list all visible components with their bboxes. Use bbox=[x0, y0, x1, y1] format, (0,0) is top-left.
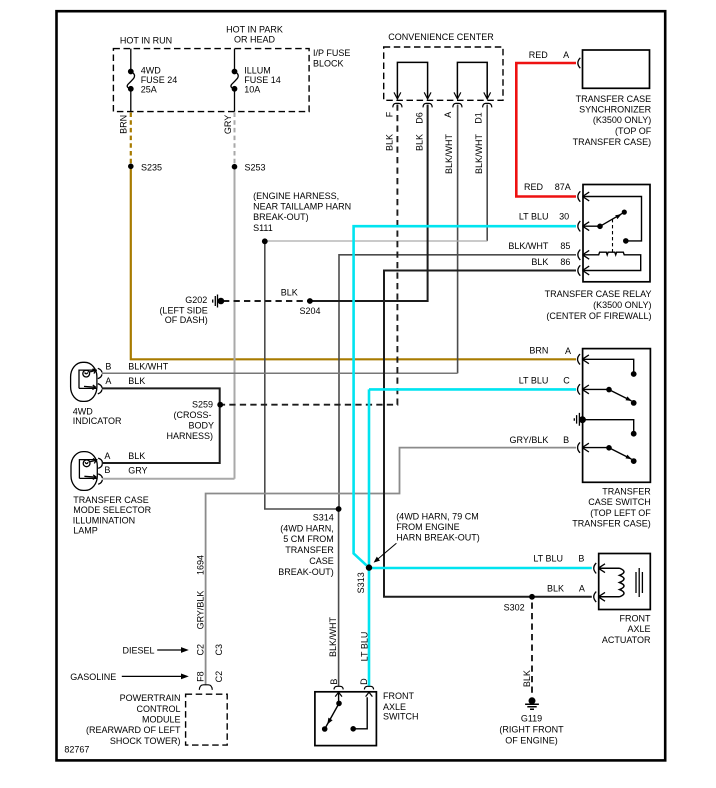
svg-text:(REARWARD OF LEFT: (REARWARD OF LEFT bbox=[86, 725, 181, 735]
svg-text:GRY: GRY bbox=[128, 466, 147, 476]
svg-text:RED: RED bbox=[524, 182, 544, 192]
svg-text:MODE SELECTOR: MODE SELECTOR bbox=[73, 505, 151, 515]
svg-text:INDICATOR: INDICATOR bbox=[73, 416, 122, 426]
svg-text:AXLE: AXLE bbox=[383, 702, 406, 712]
svg-text:87A: 87A bbox=[555, 182, 571, 192]
svg-text:I/P FUSE: I/P FUSE bbox=[313, 48, 350, 58]
svg-text:B: B bbox=[105, 361, 111, 371]
svg-text:C2: C2 bbox=[214, 671, 224, 683]
svg-text:BLK: BLK bbox=[531, 257, 548, 267]
svg-text:C3: C3 bbox=[214, 644, 224, 656]
svg-text:OF ENGINE): OF ENGINE) bbox=[505, 736, 558, 746]
svg-text:BLK: BLK bbox=[414, 134, 424, 151]
svg-text:BLK/WHT: BLK/WHT bbox=[444, 134, 454, 175]
svg-text:OR HEAD: OR HEAD bbox=[234, 34, 276, 44]
svg-text:HOT IN RUN: HOT IN RUN bbox=[120, 36, 172, 46]
svg-text:LT BLU: LT BLU bbox=[533, 553, 563, 563]
svg-text:CASE SWITCH: CASE SWITCH bbox=[588, 497, 651, 507]
svg-text:(TOP OF: (TOP OF bbox=[615, 126, 652, 136]
svg-text:SYNCHRONIZER: SYNCHRONIZER bbox=[579, 105, 652, 115]
svg-text:TRANSFER CASE RELAY: TRANSFER CASE RELAY bbox=[545, 289, 652, 299]
svg-text:TRANSFER CASE: TRANSFER CASE bbox=[576, 94, 652, 104]
svg-text:BRN: BRN bbox=[119, 115, 129, 134]
svg-text:GRY/BLK: GRY/BLK bbox=[196, 591, 206, 630]
svg-text:D: D bbox=[359, 678, 369, 685]
svg-text:A: A bbox=[104, 451, 110, 461]
svg-text:A: A bbox=[105, 376, 111, 386]
svg-text:(RIGHT FRONT: (RIGHT FRONT bbox=[499, 725, 564, 735]
svg-text:BREAK-OUT): BREAK-OUT) bbox=[253, 212, 309, 222]
svg-text:G119: G119 bbox=[521, 713, 542, 723]
svg-text:(CROSS-: (CROSS- bbox=[174, 410, 212, 420]
svg-text:BREAK-OUT): BREAK-OUT) bbox=[278, 567, 334, 577]
svg-text:S313: S313 bbox=[356, 572, 366, 593]
svg-text:1694: 1694 bbox=[196, 555, 206, 575]
svg-text:BLK/WHT: BLK/WHT bbox=[128, 361, 169, 371]
svg-text:85: 85 bbox=[560, 241, 570, 251]
svg-text:4WD: 4WD bbox=[73, 406, 94, 416]
svg-text:(LEFT SIDE: (LEFT SIDE bbox=[159, 305, 207, 315]
svg-text:LT BLU: LT BLU bbox=[519, 375, 549, 385]
svg-text:OF DASH): OF DASH) bbox=[165, 315, 208, 325]
svg-text:5 CM FROM: 5 CM FROM bbox=[283, 534, 334, 544]
svg-text:FRONT: FRONT bbox=[383, 691, 414, 701]
svg-text:BLK: BLK bbox=[385, 134, 395, 151]
svg-text:(TOP LEFT OF: (TOP LEFT OF bbox=[590, 508, 651, 518]
svg-text:S259: S259 bbox=[192, 399, 213, 409]
svg-text:C: C bbox=[563, 375, 570, 385]
svg-text:(CENTER OF FIREWALL): (CENTER OF FIREWALL) bbox=[546, 311, 651, 321]
svg-text:CASE: CASE bbox=[309, 556, 334, 566]
svg-text:A: A bbox=[443, 112, 453, 118]
svg-text:A: A bbox=[565, 346, 571, 356]
svg-text:SHOCK TOWER): SHOCK TOWER) bbox=[110, 736, 181, 746]
svg-text:HOT IN PARK: HOT IN PARK bbox=[226, 24, 283, 34]
svg-text:G202: G202 bbox=[185, 295, 207, 305]
svg-text:B: B bbox=[578, 553, 584, 563]
svg-text:S302: S302 bbox=[504, 603, 525, 613]
svg-text:BODY: BODY bbox=[188, 420, 214, 430]
svg-text:TRANSFER CASE): TRANSFER CASE) bbox=[573, 137, 652, 147]
svg-text:FROM ENGINE: FROM ENGINE bbox=[396, 522, 460, 532]
svg-text:(4WD HARN, 79 CM: (4WD HARN, 79 CM bbox=[396, 511, 479, 521]
svg-text:TRANSFER CASE): TRANSFER CASE) bbox=[572, 518, 651, 528]
svg-text:ILLUMINATION: ILLUMINATION bbox=[73, 515, 135, 525]
svg-text:(K3500 ONLY): (K3500 ONLY) bbox=[593, 115, 651, 125]
svg-text:LT BLU: LT BLU bbox=[359, 632, 369, 662]
svg-text:RED: RED bbox=[529, 50, 549, 60]
svg-text:B: B bbox=[329, 679, 339, 685]
svg-text:NEAR TAILLAMP HARN: NEAR TAILLAMP HARN bbox=[253, 202, 351, 212]
svg-text:DIESEL: DIESEL bbox=[122, 645, 154, 655]
svg-text:TRANSFER: TRANSFER bbox=[285, 545, 334, 555]
svg-text:B: B bbox=[563, 435, 569, 445]
svg-text:S253: S253 bbox=[245, 162, 266, 172]
svg-text:BLK/WHT: BLK/WHT bbox=[328, 617, 338, 658]
svg-text:D1: D1 bbox=[473, 112, 483, 124]
svg-text:86: 86 bbox=[560, 257, 570, 267]
svg-text:FUSE 24: FUSE 24 bbox=[141, 75, 178, 85]
svg-text:SWITCH: SWITCH bbox=[383, 712, 419, 722]
svg-text:FRONT: FRONT bbox=[620, 614, 651, 624]
svg-text:LT BLU: LT BLU bbox=[519, 212, 549, 222]
svg-text:F: F bbox=[385, 111, 395, 117]
svg-text:25A: 25A bbox=[141, 85, 157, 95]
svg-text:GRY: GRY bbox=[223, 115, 233, 134]
svg-text:30: 30 bbox=[559, 212, 569, 222]
svg-text:S235: S235 bbox=[141, 162, 162, 172]
svg-text:HARN BREAK-OUT): HARN BREAK-OUT) bbox=[396, 532, 480, 542]
svg-text:D6: D6 bbox=[414, 112, 424, 124]
svg-text:BLK: BLK bbox=[281, 287, 298, 297]
svg-text:S111: S111 bbox=[253, 223, 273, 233]
svg-text:ACTUATOR: ACTUATOR bbox=[602, 635, 651, 645]
svg-text:AXLE: AXLE bbox=[627, 624, 650, 634]
svg-text:FUSE 14: FUSE 14 bbox=[244, 75, 281, 85]
svg-text:HARNESS): HARNESS) bbox=[166, 431, 213, 441]
svg-text:S204: S204 bbox=[300, 306, 321, 316]
svg-text:A: A bbox=[563, 50, 569, 60]
svg-text:82767: 82767 bbox=[64, 744, 89, 754]
svg-text:TRANSFER: TRANSFER bbox=[602, 487, 651, 497]
svg-text:CONTROL: CONTROL bbox=[136, 704, 180, 714]
svg-text:10A: 10A bbox=[244, 85, 260, 95]
svg-text:LAMP: LAMP bbox=[73, 526, 98, 536]
svg-text:(ENGINE HARNESS,: (ENGINE HARNESS, bbox=[253, 191, 339, 201]
svg-text:(4WD HARN,: (4WD HARN, bbox=[280, 523, 334, 533]
svg-text:BRN: BRN bbox=[529, 346, 548, 356]
svg-text:GASOLINE: GASOLINE bbox=[70, 672, 116, 682]
svg-text:TRANSFER CASE: TRANSFER CASE bbox=[73, 495, 149, 505]
svg-text:BLK: BLK bbox=[547, 584, 564, 594]
svg-text:S314: S314 bbox=[313, 512, 334, 522]
svg-text:BLK: BLK bbox=[522, 670, 532, 687]
svg-text:BLK: BLK bbox=[128, 451, 145, 461]
svg-text:GRY/BLK: GRY/BLK bbox=[510, 435, 549, 445]
svg-text:BLK/WHT: BLK/WHT bbox=[474, 134, 484, 175]
svg-text:MODULE: MODULE bbox=[142, 715, 181, 725]
svg-text:(K3500 ONLY): (K3500 ONLY) bbox=[593, 300, 651, 310]
svg-text:C2: C2 bbox=[196, 644, 206, 656]
svg-text:A: A bbox=[579, 584, 585, 594]
svg-text:BLK/WHT: BLK/WHT bbox=[508, 241, 549, 251]
svg-text:BLK: BLK bbox=[128, 376, 145, 386]
svg-text:BLOCK: BLOCK bbox=[313, 59, 344, 69]
svg-text:CONVENIENCE CENTER: CONVENIENCE CENTER bbox=[388, 32, 494, 42]
svg-text:F8: F8 bbox=[196, 671, 206, 682]
svg-text:POWERTRAIN: POWERTRAIN bbox=[120, 693, 181, 703]
svg-text:B: B bbox=[104, 465, 110, 475]
